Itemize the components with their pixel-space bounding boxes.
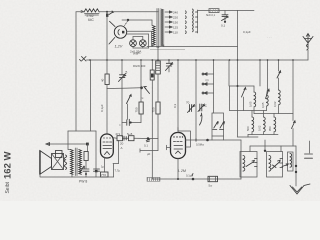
bottom bus <box>152 178 241 180</box>
wire left vertical <box>75 12 77 131</box>
wire y137 right <box>238 136 259 138</box>
svg-text:40: 40 <box>101 78 105 82</box>
wire x229 <box>228 60 230 86</box>
wire secondary top to grid line <box>151 20 153 26</box>
svg-text:0,05: 0,05 <box>261 102 265 108</box>
ground <box>290 184 310 194</box>
svg-text:Sich.0,1: Sich.0,1 <box>206 14 216 17</box>
svg-text:Seibt: Seibt <box>5 181 11 193</box>
wire x278.5 blade 3 <box>277 60 281 90</box>
svg-text:0,02: 0,02 <box>258 125 262 131</box>
resistor R x152 top <box>150 60 154 88</box>
antenna <box>303 34 313 60</box>
blade on x293 <box>292 121 296 146</box>
resistor 271 <box>116 132 123 141</box>
svg-text:500: 500 <box>246 126 250 131</box>
wire y110.5 <box>230 110 267 112</box>
svg-text:20: 20 <box>120 142 124 146</box>
svg-text:W8F²: W8F² <box>133 52 140 56</box>
main bus wire <box>87 59 309 61</box>
wire x241 <box>240 140 242 179</box>
cap box K2 <box>267 152 283 178</box>
wire y131 <box>68 130 96 132</box>
switch blade 1 <box>242 88 247 111</box>
speaker <box>40 151 67 175</box>
svg-text:· · ·: · · · <box>267 35 272 39</box>
svg-text:220: 220 <box>173 15 178 19</box>
svg-text:950: 950 <box>268 126 272 131</box>
lamp La2 <box>139 37 146 49</box>
variable capacitor box <box>212 113 224 140</box>
svg-text:240: 240 <box>173 10 178 14</box>
svg-text:750: 750 <box>151 107 155 112</box>
svg-text:1μ: 1μ <box>101 165 104 169</box>
svg-text:162 W: 162 W <box>2 152 13 179</box>
resistor 5w on bottom bus <box>208 176 218 187</box>
coil resistor row2 b <box>258 111 266 135</box>
bus junction dots <box>89 59 294 61</box>
wire x118.5 from R271 down <box>119 141 124 164</box>
svg-text:0,02: 0,02 <box>273 101 277 107</box>
junction dot with L2M text <box>178 169 194 180</box>
tube V3 <box>171 133 186 159</box>
cap box K1 <box>240 152 257 178</box>
wire x260 <box>259 60 261 86</box>
svg-text:A: A <box>121 146 123 150</box>
wire mains top <box>198 10 238 12</box>
junction dot y139 <box>147 137 150 140</box>
fuse Si <box>206 9 219 17</box>
mains taps <box>165 10 178 34</box>
wire x96 <box>95 131 97 169</box>
wire left tick into V3 <box>167 145 171 149</box>
wire bottom left bus <box>40 174 114 177</box>
bracket x113-119 <box>113 164 119 178</box>
svg-text:RGW 400: RGW 400 <box>133 64 146 68</box>
wire heater lines <box>127 30 152 32</box>
resistor R on x107 <box>101 60 110 89</box>
switch blade x201 <box>200 113 203 125</box>
svg-text:7,7μ: 7,7μ <box>115 169 121 173</box>
wire y150 <box>140 149 158 152</box>
wire x122 down <box>121 89 123 137</box>
contact switch near x145 <box>140 86 149 100</box>
node top junction with arrow <box>106 11 113 17</box>
wire vertical from L1 node down <box>106 12 108 60</box>
wire top horizontal <box>99 11 158 13</box>
switch blade x128 <box>127 95 132 120</box>
svg-text:0,5Mω: 0,5Mω <box>196 143 204 147</box>
trimmer x169 <box>166 60 173 72</box>
wire vertical x90 <box>90 60 92 131</box>
svg-text:70: 70 <box>186 101 190 105</box>
svg-text:(x): (x) <box>206 78 209 82</box>
right bank bracket y86 <box>230 85 255 87</box>
resistor x86 <box>84 152 88 169</box>
contact arrows <box>202 73 213 75</box>
capacitor x96 <box>94 165 105 178</box>
svg-text:0,1μF: 0,1μF <box>243 30 251 34</box>
hatch label left <box>147 177 160 181</box>
trimmer C x201 <box>198 104 208 112</box>
wire x296 <box>295 146 297 186</box>
coil assembly right <box>282 152 293 171</box>
junction dot tube3 cathode <box>177 178 179 180</box>
wire x237 lower <box>237 60 239 137</box>
wire x178 bus to tube <box>177 60 179 131</box>
svg-text:64C: 64C <box>88 18 95 22</box>
vertical 01uF label on x107 <box>106 89 108 135</box>
wire grid line y20 <box>122 19 152 21</box>
wire transformer bottom <box>147 46 238 48</box>
svg-text:L 2M: L 2M <box>178 169 186 173</box>
resistor chain x141 <box>134 60 143 123</box>
wire x213 <box>213 60 215 113</box>
wire x68 down <box>68 131 71 150</box>
coil resistor row2 a <box>246 111 254 135</box>
arrow wire y144 <box>46 143 89 152</box>
wire x293 <box>292 60 294 121</box>
svg-text:150: 150 <box>173 20 178 24</box>
svg-text:110: 110 <box>173 30 178 34</box>
svg-text:0,05: 0,05 <box>249 101 253 107</box>
svg-text:750: 750 <box>134 107 138 112</box>
wire anode y140 <box>186 139 242 147</box>
wire y146 <box>250 145 296 147</box>
output transformer <box>71 148 82 176</box>
resistor 750 x161 <box>151 102 160 151</box>
capacitor mains <box>221 11 228 28</box>
wire right vertical from mains <box>237 11 239 61</box>
capacitor x86 <box>77 163 90 178</box>
svg-text:271: 271 <box>116 132 121 136</box>
resistor 770 box <box>101 157 109 177</box>
capacitor y122 <box>119 119 141 127</box>
svg-text:0,1: 0,1 <box>221 24 226 28</box>
wire x267.5 with blade 2 <box>266 60 270 99</box>
svg-text:PW 8: PW 8 <box>79 180 87 184</box>
svg-text:125: 125 <box>173 25 178 29</box>
wire y113.5 <box>254 113 293 115</box>
resistor 5w5 <box>124 132 134 141</box>
voltage selector <box>186 9 198 34</box>
coil resistor row1 a <box>249 86 256 114</box>
svg-text:1,2V: 1,2V <box>115 45 123 49</box>
coil resistor row2 c <box>268 114 276 135</box>
svg-text:μF: μF <box>147 152 151 156</box>
trimmer 70 x191 <box>186 101 195 113</box>
tube V2 pentode <box>101 134 114 158</box>
svg-text:0,3: 0,3 <box>173 103 177 108</box>
bracket above V3 <box>178 128 191 148</box>
transformer Tr1 <box>153 9 164 48</box>
svg-text:0,1: 0,1 <box>144 144 148 148</box>
node grid cap <box>127 19 129 21</box>
tube V1 <box>109 21 127 44</box>
svg-text:0,1: 0,1 <box>77 163 81 167</box>
capacitor far right <box>305 141 313 158</box>
antenna coil L1 <box>81 9 99 22</box>
svg-text:770: 770 <box>101 173 106 177</box>
long wire y139 <box>113 137 158 140</box>
svg-text:5: 5 <box>126 71 128 75</box>
resistor dark x161 <box>133 47 160 103</box>
switch X at bus start <box>80 57 87 62</box>
wire x196 <box>195 60 197 140</box>
wire y134.5 <box>248 134 278 136</box>
svg-text:5ω5: 5ω5 <box>127 132 133 136</box>
tube V3 cathode to bus <box>177 159 179 180</box>
wire connector y88 <box>107 87 141 90</box>
svg-text:0,1μF: 0,1μF <box>100 104 104 112</box>
svg-text:0,1μF: 0,1μF <box>186 174 193 178</box>
trimmer C on x122 <box>119 60 128 89</box>
lamp La1 <box>130 37 143 49</box>
coil resistor row1 b <box>261 89 268 111</box>
coil resistor row1 c <box>273 90 280 114</box>
